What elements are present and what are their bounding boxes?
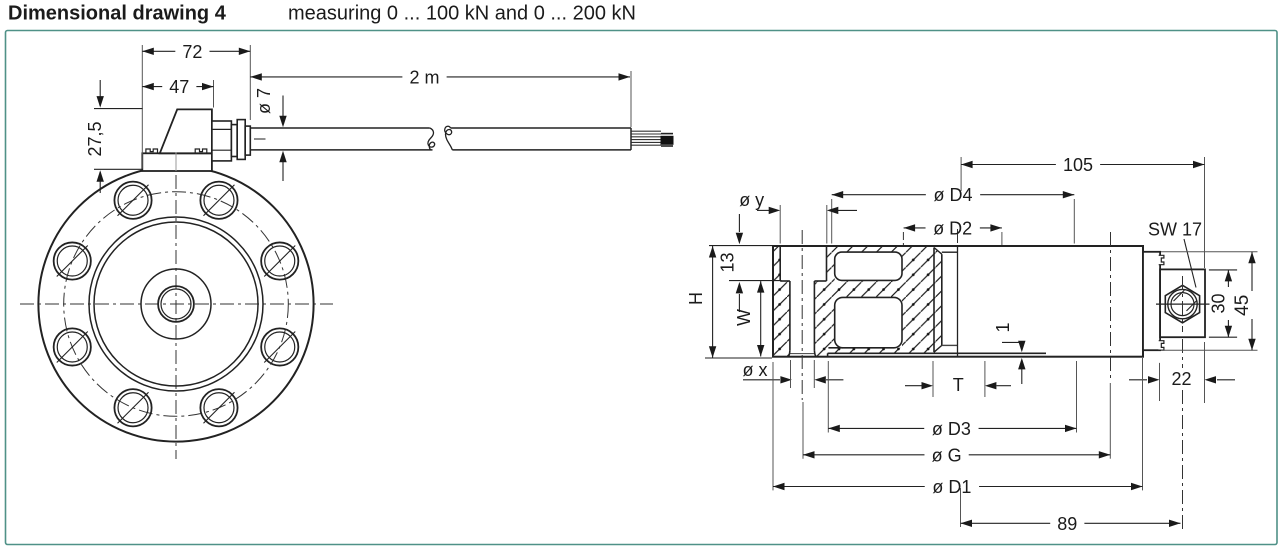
center hole bottom <box>942 344 958 346</box>
SW 17 leader <box>1184 239 1196 288</box>
flange vertical centerline <box>175 150 177 459</box>
center boss circle <box>141 269 211 339</box>
extension line plate left <box>141 45 143 169</box>
svg-text:1: 1 <box>993 322 1013 332</box>
svg-text:ø D3: ø D3 <box>932 419 971 439</box>
wire strands <box>632 130 662 132</box>
boss cylinder edge <box>933 248 935 353</box>
svg-text:measuring 0 ... 100 kN and 0 .: measuring 0 ... 100 kN and 0 ... 200 kN <box>288 3 636 25</box>
svg-text:T: T <box>953 375 964 395</box>
boss bottom chamfer <box>934 345 942 352</box>
bolt hole 7 <box>54 242 91 279</box>
bolt hole centerline left <box>801 230 803 400</box>
svg-text:2 m: 2 m <box>409 67 439 87</box>
connector body <box>1160 269 1205 337</box>
dimension 13 <box>709 245 773 247</box>
extension lines D4 <box>831 199 833 244</box>
bolt hole 3 <box>261 328 298 365</box>
cap notch bottom <box>1159 341 1164 350</box>
svg-text:ø x: ø x <box>743 360 768 380</box>
bolt hole centerline right <box>1110 232 1112 381</box>
connector cap plate <box>1143 252 1160 350</box>
bolt hole bottom countersink <box>790 353 815 355</box>
dimension 89 <box>961 522 1051 524</box>
connector box <box>160 109 212 153</box>
connector base notch left <box>146 149 158 153</box>
flange raised ring outer <box>89 217 263 391</box>
extension lines G <box>802 402 804 459</box>
dimension 47 <box>142 86 162 88</box>
bolt hole 1 <box>200 182 237 219</box>
center hole top <box>942 251 958 253</box>
flange horizontal centerline <box>20 303 333 305</box>
svg-text:13: 13 <box>718 252 738 272</box>
svg-text:22: 22 <box>1171 369 1191 389</box>
center hole outer <box>158 286 194 322</box>
gland ring A <box>231 125 237 157</box>
center hole wall <box>941 254 943 345</box>
svg-text:30: 30 <box>1208 293 1228 313</box>
cable break squiggle right <box>445 126 453 150</box>
middle cavity <box>835 297 902 347</box>
svg-text:ø G: ø G <box>932 445 962 465</box>
gland neck <box>212 121 232 161</box>
dimension 30 <box>1209 269 1237 271</box>
cable break squiggle left <box>428 128 435 150</box>
dimension D2 <box>904 227 926 229</box>
bolt hole 4 <box>200 389 237 426</box>
wire end ferrule <box>661 133 673 135</box>
counterbore right edge <box>826 246 828 281</box>
bolt hole 5 <box>114 389 151 426</box>
hex crosshair vertical <box>1182 276 1184 332</box>
extension lines D1 <box>772 362 774 490</box>
cable bottom line <box>250 149 432 151</box>
dimension 72 <box>142 50 175 52</box>
extension line box right <box>213 80 215 108</box>
extension lines 105 <box>960 157 962 191</box>
dimension 45 <box>1161 251 1258 253</box>
counterbore left edge <box>779 246 781 281</box>
dimension H <box>705 357 772 359</box>
connector axis extension <box>1182 339 1184 368</box>
dimension D3 <box>828 427 924 429</box>
svg-text:ø y: ø y <box>739 190 764 210</box>
dimension 2 m <box>250 76 402 78</box>
svg-text:47: 47 <box>169 77 189 97</box>
extension line cable end <box>630 71 632 127</box>
section hatch regions <box>773 246 942 357</box>
hex circles <box>1168 289 1197 318</box>
flange raised ring inner <box>94 222 258 386</box>
axis centerline top <box>957 229 959 246</box>
svg-text:ø 7: ø 7 <box>254 88 274 114</box>
svg-text:105: 105 <box>1063 155 1093 175</box>
extension lines D2 <box>902 232 904 245</box>
gland ring B <box>245 126 250 155</box>
svg-text:Dimensional drawing 4: Dimensional drawing 4 <box>8 3 227 25</box>
svg-text:89: 89 <box>1057 514 1077 534</box>
axis boundary line <box>957 246 959 357</box>
bolt hole 6 <box>54 328 91 365</box>
svg-text:ø D4: ø D4 <box>933 185 972 205</box>
svg-text:ø D1: ø D1 <box>932 477 971 497</box>
hex nut SW17 <box>1165 285 1199 323</box>
cable sheath end <box>630 128 632 150</box>
svg-text:27,5: 27,5 <box>85 121 105 156</box>
dimension G <box>803 454 924 456</box>
svg-text:SW 17: SW 17 <box>1148 220 1202 240</box>
dimension 105 <box>961 164 1056 166</box>
recess surface line <box>828 352 1046 354</box>
svg-text:W: W <box>734 309 754 326</box>
flange outer circle <box>38 166 313 441</box>
dimension W <box>760 281 762 356</box>
dimension 27,5 <box>94 108 143 110</box>
svg-text:72: 72 <box>182 42 202 62</box>
bolt circle centerline <box>64 192 289 417</box>
extension line 89 <box>960 488 962 527</box>
cable top line <box>250 127 429 129</box>
bolt hole walls <box>789 281 791 350</box>
cap notch top <box>1159 255 1164 264</box>
dimension D1 <box>773 486 925 488</box>
cable center dash <box>254 138 266 140</box>
gland nut <box>237 120 245 160</box>
extension lines D3 <box>827 361 829 433</box>
body outline <box>773 246 1143 357</box>
hex crosshair horizontal <box>1156 303 1210 305</box>
svg-text:45: 45 <box>1232 295 1253 316</box>
svg-text:H: H <box>686 292 706 305</box>
hex thread slashes <box>1174 290 1185 301</box>
dimension D4 <box>832 194 926 196</box>
bolt hole 2 <box>261 242 298 279</box>
bolt hole 8 <box>114 182 151 219</box>
recess step <box>827 353 829 356</box>
counterbore bottom shoulders <box>780 280 790 282</box>
plate centerline <box>175 153 177 172</box>
svg-text:ø D2: ø D2 <box>933 218 972 238</box>
connector base plate <box>142 153 212 171</box>
membrane top edge <box>828 347 842 349</box>
connector base notch right <box>195 149 207 153</box>
boss top chamfer <box>934 248 942 255</box>
top cavity <box>835 252 902 280</box>
center hole inner <box>161 289 191 319</box>
extension line gland end <box>249 45 251 120</box>
